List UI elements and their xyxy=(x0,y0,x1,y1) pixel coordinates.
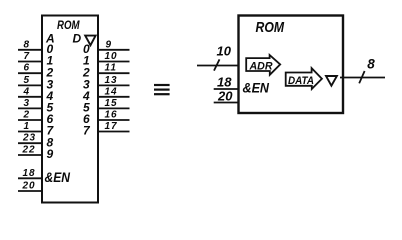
svg-text:14: 14 xyxy=(105,86,118,97)
wire pin 10 (D1) xyxy=(98,61,130,63)
svg-text:11: 11 xyxy=(105,63,117,74)
wire pin 2 (A6) xyxy=(18,119,42,121)
svg-text:&EN: &EN xyxy=(243,80,270,96)
bus width slash on address bus xyxy=(214,59,220,70)
wire pin 7 (A1) xyxy=(18,61,42,63)
wire address bus input xyxy=(197,65,239,67)
wire pin 1 (A7) xyxy=(18,131,42,133)
svg-text:7: 7 xyxy=(24,51,30,62)
svg-text:DATA: DATA xyxy=(288,75,314,87)
wire data bus output xyxy=(340,77,385,79)
wire pin 17 (D7) xyxy=(98,131,130,133)
wire pin 23 (A8) xyxy=(18,142,42,144)
svg-text:D: D xyxy=(73,32,82,46)
svg-text:1: 1 xyxy=(24,121,30,132)
svg-text:5: 5 xyxy=(24,75,30,86)
svg-text:8: 8 xyxy=(24,39,30,50)
svg-text:8: 8 xyxy=(367,56,375,71)
DATA flow pennant xyxy=(286,68,322,89)
wire pin 20 (EN input 2) xyxy=(18,190,42,192)
wire pin 22 (A9) xyxy=(18,154,42,156)
3-state output triangle symbol xyxy=(85,36,95,46)
wire pin 13 (D3) xyxy=(98,84,130,86)
wire pin 16 (D6) xyxy=(98,119,130,121)
svg-text:20: 20 xyxy=(22,181,36,192)
svg-text:17: 17 xyxy=(105,121,118,132)
svg-text:15: 15 xyxy=(105,98,118,109)
svg-text:20: 20 xyxy=(217,88,233,103)
svg-text:ROM: ROM xyxy=(256,19,285,36)
IC body U1 (ROM, detailed IEC symbol) xyxy=(42,16,98,203)
svg-text:3: 3 xyxy=(24,98,30,109)
wire pin 11 (D2) xyxy=(98,72,130,74)
svg-text:10: 10 xyxy=(105,51,118,62)
wire pin 4 (A4) xyxy=(18,96,42,98)
wire pin 3 (A5) xyxy=(18,107,42,109)
svg-text:9: 9 xyxy=(47,147,54,161)
svg-text:ROM: ROM xyxy=(57,18,80,32)
svg-text:6: 6 xyxy=(24,63,30,74)
svg-text:2: 2 xyxy=(23,110,30,121)
wire pin 5 (A3) xyxy=(18,84,42,86)
svg-text:ADR: ADR xyxy=(249,61,273,73)
svg-text:18: 18 xyxy=(23,168,36,179)
svg-text:23: 23 xyxy=(22,133,36,144)
wire pin 6 (A2) xyxy=(18,72,42,74)
equivalence sign xyxy=(154,85,170,94)
wire pin 20 (EN input 2, simplified) xyxy=(214,102,239,104)
svg-text:4: 4 xyxy=(23,86,30,97)
wire pin 14 (D4) xyxy=(98,96,130,98)
wire pin 9 (D0) xyxy=(98,49,130,51)
wire pin 15 (D5) xyxy=(98,107,130,109)
wire pin 8 (A0) xyxy=(18,49,42,51)
bus width slash on data bus xyxy=(359,71,364,83)
svg-text:16: 16 xyxy=(105,110,118,121)
svg-text:22: 22 xyxy=(22,145,36,156)
wire pin 18 (EN input 1) xyxy=(18,177,42,179)
svg-text:13: 13 xyxy=(105,75,118,86)
svg-text:&EN: &EN xyxy=(45,169,71,185)
ADR flow pennant xyxy=(246,55,280,75)
3-state output triangle (simplified symbol) xyxy=(326,76,337,86)
svg-text:9: 9 xyxy=(106,39,112,50)
IC body U2 (ROM, simplified symbol) xyxy=(239,16,344,114)
wire pin 18 (EN input 1, simplified) xyxy=(214,88,239,90)
svg-text:10: 10 xyxy=(217,44,232,59)
